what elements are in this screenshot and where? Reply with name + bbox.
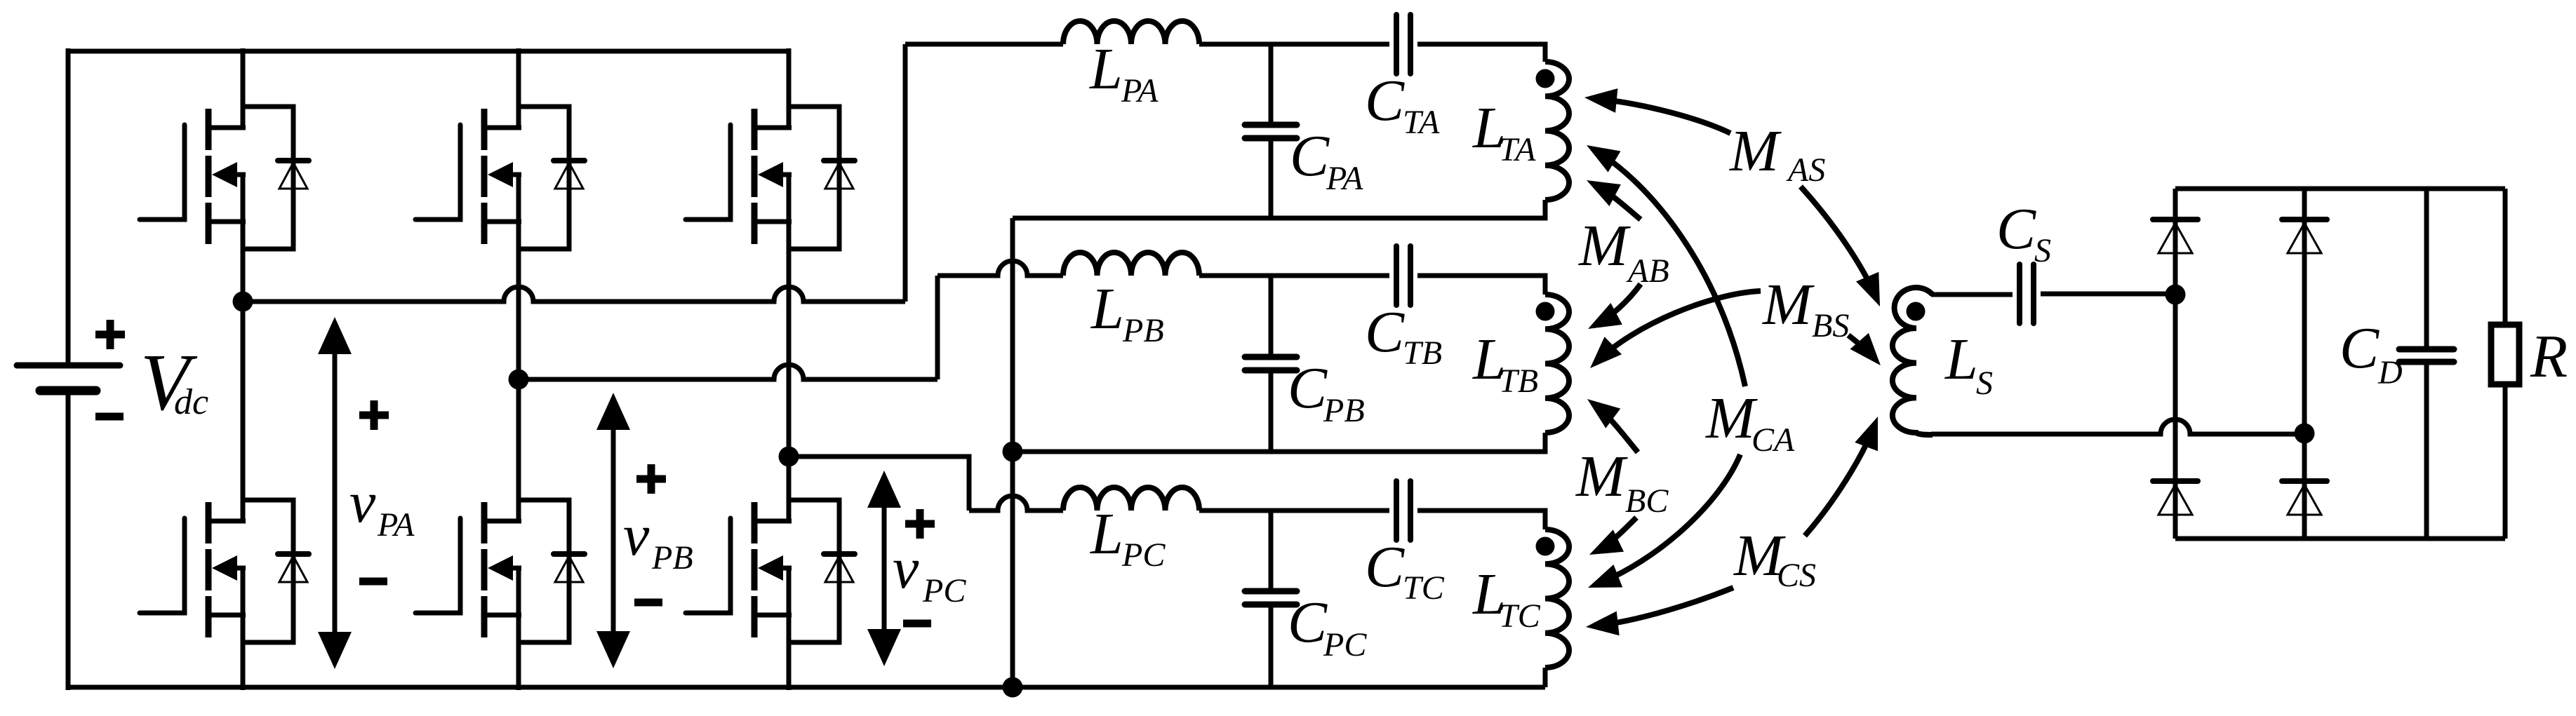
- svg-text:C: C: [2340, 316, 2380, 381]
- label LPB: [1090, 276, 1164, 349]
- label CTA: [1365, 68, 1440, 141]
- capacitor CPC branch: [1269, 511, 1274, 687]
- capacitor CD: [2399, 349, 2454, 362]
- wire phase B riser: [935, 276, 940, 379]
- battery Vdc bottom lead: [66, 391, 71, 690]
- svg-text:PB: PB: [1122, 312, 1164, 349]
- battery minus sign: [95, 413, 124, 421]
- label MAS: [1729, 119, 1825, 189]
- svg-text:v: v: [623, 503, 650, 568]
- mutual coupling MBS arc (LTB end): [1596, 291, 1761, 362]
- plus sign vPB: [636, 464, 666, 494]
- svg-text:dc: dc: [174, 382, 208, 422]
- arrow vPC: [867, 471, 901, 666]
- label LPC: [1090, 501, 1166, 574]
- svg-text:TA: TA: [1499, 131, 1536, 168]
- svg-text:M: M: [1729, 119, 1782, 184]
- diode D1: [2153, 219, 2198, 253]
- wire CTA to LTA: [1417, 44, 1545, 62]
- mutual coupling MAS arc (LS end): [1801, 187, 1876, 298]
- svg-text:v: v: [349, 470, 376, 535]
- svg-text:C: C: [1288, 356, 1328, 421]
- svg-text:BS: BS: [1812, 307, 1849, 344]
- wire phase C top (hops over return line): [969, 496, 1063, 511]
- node common return joins bottom rail: [1003, 677, 1023, 698]
- svg-text:M: M: [1705, 386, 1758, 451]
- battery Vdc left lead: [66, 48, 71, 365]
- mutual coupling MCS arc (LTC end): [1595, 588, 1733, 626]
- label vPB: [623, 503, 693, 576]
- MOSFET Q4 (leg B low side): [415, 379, 585, 690]
- resistor R body: [2491, 325, 2519, 384]
- dot mark LTC: [1536, 537, 1555, 556]
- label MAB: [1578, 213, 1669, 290]
- svg-text:C: C: [1288, 590, 1328, 655]
- svg-text:M: M: [1762, 272, 1815, 337]
- label CPC: [1288, 590, 1367, 663]
- battery plus sign: [95, 320, 125, 349]
- svg-text:AB: AB: [1626, 252, 1669, 290]
- svg-text:C: C: [1365, 299, 1405, 365]
- node B (leg B midpoint): [509, 370, 529, 390]
- MOSFET Q5 (leg C high side): [686, 48, 855, 457]
- svg-text:CS: CS: [1777, 557, 1816, 594]
- mutual coupling MBC arc (LTB end): [1594, 405, 1638, 452]
- svg-text:TC: TC: [1499, 597, 1541, 635]
- capacitor CPB branch: [1269, 276, 1274, 452]
- wire LPB to CTB: [1199, 273, 1389, 278]
- label MBS: [1762, 272, 1849, 344]
- plus sign vPA: [359, 400, 389, 430]
- arrow vPB: [596, 393, 630, 668]
- capacitor CPA branch: [1269, 44, 1274, 218]
- mutual coupling MBS arc (LS end): [1848, 335, 1874, 358]
- svg-text:L: L: [1089, 36, 1123, 102]
- wire common return line: [1010, 218, 1015, 687]
- battery Vdc positive plate: [17, 363, 120, 369]
- label LTA: [1472, 95, 1536, 168]
- svg-text:L: L: [1944, 327, 1978, 392]
- node C (leg C midpoint): [779, 447, 799, 467]
- wire leg C midpoint east: [789, 457, 969, 511]
- capacitor CPC: [1245, 591, 1297, 604]
- label CPB: [1288, 356, 1365, 429]
- capacitor CTB: [1396, 246, 1410, 305]
- label vPC: [893, 536, 966, 609]
- DC bus negative rail (bottom): [66, 685, 1546, 690]
- svg-text:PB: PB: [651, 539, 693, 576]
- svg-text:TC: TC: [1403, 569, 1445, 607]
- wire LS bottom to rectifier (hops over bridge leg): [1931, 419, 2304, 434]
- label CPA: [1290, 123, 1363, 197]
- wire LTB bottom / phase B return: [1013, 433, 1545, 452]
- svg-text:CA: CA: [1751, 421, 1795, 459]
- capacitor CPB: [1245, 357, 1297, 370]
- wire LPA to CTA: [1199, 42, 1389, 47]
- diode D4: [2282, 481, 2327, 515]
- wire phase A top: [905, 42, 1063, 47]
- wire LTA bottom / phase A return: [1013, 200, 1545, 218]
- mutual coupling MAB arc (LTA end): [1595, 184, 1641, 219]
- rectifier bridge frame: [2175, 189, 2505, 539]
- plus sign vPC: [905, 509, 935, 539]
- arrow vPA: [318, 317, 352, 669]
- svg-text:C: C: [1290, 123, 1330, 189]
- diode D2: [2282, 219, 2327, 253]
- wire CTC to LTC: [1417, 511, 1545, 529]
- label CTC: [1365, 534, 1445, 607]
- battery Vdc negative plate: [40, 386, 96, 396]
- svg-text:PB: PB: [1323, 392, 1365, 429]
- svg-text:PC: PC: [1323, 626, 1367, 663]
- mutual coupling MCS arc (LS end): [1805, 425, 1874, 536]
- dot mark LTA: [1536, 69, 1555, 88]
- svg-text:TA: TA: [1403, 104, 1440, 141]
- node rectifier input bottom: [2295, 424, 2315, 444]
- inductor LPC: [1063, 487, 1199, 511]
- MOSFET Q3 (leg B high side): [415, 48, 585, 379]
- svg-text:M: M: [1578, 213, 1631, 278]
- svg-text:L: L: [1090, 501, 1123, 567]
- MOSFET Q2 (leg A low side): [140, 302, 309, 690]
- mutual coupling MCA arc (LTC end): [1596, 454, 1740, 584]
- svg-text:PA: PA: [377, 506, 415, 543]
- svg-text:PA: PA: [1121, 72, 1159, 109]
- inductor LS (Rx coil): [1893, 288, 1933, 435]
- wire leg B midpoint east (hops over leg C): [519, 365, 937, 379]
- MOSFET Q1 (leg A high side): [140, 48, 309, 302]
- mutual coupling MAB arc (LTB end): [1596, 284, 1641, 325]
- wire LPC to CTC: [1199, 508, 1389, 513]
- minus sign vPB: [634, 599, 662, 607]
- label MBC: [1575, 444, 1669, 520]
- svg-text:PC: PC: [1121, 536, 1166, 574]
- wire leg A midpoint to phase A network (hops over legs B,C): [243, 287, 905, 302]
- dot mark LTB: [1536, 302, 1555, 321]
- MOSFET Q6 (leg C low side): [686, 457, 855, 690]
- capacitor CD branch: [2424, 189, 2429, 539]
- inductor LPB: [1063, 252, 1199, 276]
- inductor LTB (Tx coil B): [1545, 295, 1569, 433]
- capacitor CTC: [1396, 481, 1410, 540]
- svg-text:C: C: [1365, 68, 1405, 133]
- mutual coupling MCA arc (LTA end): [1594, 150, 1745, 386]
- node rectifier input top: [2165, 285, 2186, 305]
- capacitor CPA: [1245, 125, 1297, 138]
- svg-text:L: L: [1090, 276, 1124, 342]
- wire phase A riser: [903, 44, 908, 302]
- wire LTC bottom to bottom rail: [1543, 668, 1548, 687]
- svg-text:PC: PC: [922, 572, 966, 609]
- minus sign vPC: [903, 620, 931, 628]
- svg-text:S: S: [1976, 365, 1993, 402]
- label LS: [1944, 327, 1993, 402]
- capacitor CTA: [1396, 15, 1410, 74]
- svg-text:C: C: [1996, 196, 2036, 262]
- svg-text:AS: AS: [1786, 151, 1825, 189]
- label MCS: [1733, 523, 1816, 594]
- svg-text:TB: TB: [1403, 335, 1442, 372]
- wire CS to rectifier: [2041, 292, 2175, 297]
- svg-text:S: S: [2034, 232, 2051, 269]
- label R: [2530, 322, 2568, 390]
- svg-text:PA: PA: [1326, 160, 1363, 197]
- svg-text:BC: BC: [1625, 482, 1669, 520]
- wire phase B top (hops over return line): [937, 261, 1063, 276]
- node phase B return joins common return: [1003, 442, 1023, 462]
- capacitor CS: [2020, 264, 2034, 323]
- svg-text:TB: TB: [1499, 363, 1538, 400]
- inductor LTC (Tx coil C): [1545, 529, 1569, 668]
- label LTC: [1472, 562, 1541, 635]
- inductor LPA: [1063, 21, 1199, 44]
- svg-text:v: v: [893, 536, 919, 601]
- mutual coupling MBC arc (LTC end): [1598, 518, 1636, 550]
- DC bus positive rail (top): [66, 49, 791, 54]
- svg-text:M: M: [1575, 444, 1628, 509]
- node A (leg A midpoint): [233, 292, 253, 312]
- mutual coupling MAS arc (LTA end): [1594, 98, 1730, 133]
- label CS: [1996, 196, 2051, 269]
- label Vdc: [140, 338, 208, 427]
- label MCA: [1705, 386, 1795, 459]
- svg-text:C: C: [1365, 534, 1405, 600]
- label vPA: [349, 470, 415, 543]
- label CTB: [1365, 299, 1442, 372]
- wire CTB to LTB: [1417, 276, 1545, 295]
- svg-text:R: R: [2530, 322, 2568, 390]
- label CD: [2340, 316, 2403, 391]
- minus sign vPA: [359, 578, 387, 586]
- inductor LTA (Tx coil A): [1545, 62, 1569, 200]
- label LPA: [1089, 36, 1159, 109]
- svg-text:D: D: [2377, 354, 2403, 391]
- wire LS top to CS: [1931, 292, 2013, 297]
- resistor R lead: [2503, 189, 2508, 539]
- diode D3: [2153, 481, 2198, 515]
- label LTB: [1472, 327, 1538, 400]
- dot mark LS: [1907, 302, 1926, 321]
